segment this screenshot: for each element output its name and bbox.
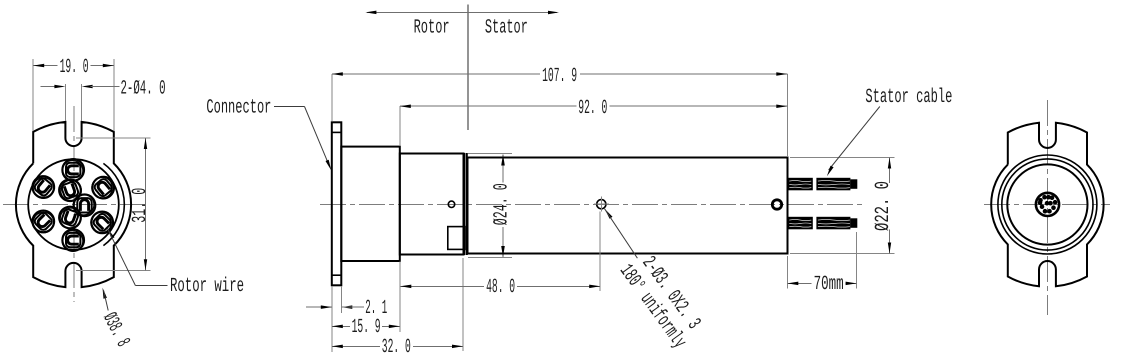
connector pin P9 — [62, 229, 84, 251]
flange plate (side view) — [332, 122, 342, 285]
dimension Ø22.0 — [872, 158, 895, 254]
svg-text:Stator: Stator — [485, 16, 528, 39]
label Stator cable with leader — [827, 86, 953, 176]
dimension 92.0 — [400, 97, 788, 120]
hole 2-Ø3.0 with crosshair — [594, 197, 609, 212]
stator cable tip bottom — [850, 218, 857, 228]
label Connector with leader — [206, 96, 331, 170]
dimension Ø24.0 — [491, 155, 514, 258]
connector pin P6 — [56, 204, 84, 232]
right view horizontal centerline — [984, 204, 1110, 206]
svg-text:32. 0: 32. 0 — [382, 336, 411, 358]
rotor/stator double arrow — [365, 11, 559, 15]
svg-text:31. 0: 31. 0 — [129, 188, 152, 223]
connector pin P1 — [62, 159, 84, 181]
svg-text:Stator cable: Stator cable — [865, 86, 952, 109]
left view horizontal centerline — [3, 204, 150, 206]
right view circle ring outer — [998, 155, 1097, 254]
svg-text:15. 9: 15. 9 — [352, 316, 381, 339]
right view vertical centerline — [1046, 100, 1048, 315]
svg-text:Connector: Connector — [206, 96, 271, 119]
extension lines middle view — [332, 74, 895, 352]
dimension 15.9 — [332, 316, 400, 339]
connector pin P8 — [87, 207, 118, 238]
dimension 48.0 — [400, 276, 600, 299]
connector pin P5 — [73, 194, 95, 216]
label 2-Ø3.0X2.3 180 uniformly with leader — [605, 209, 705, 353]
stator cable bundles top row — [788, 178, 813, 191]
dimension 31.0 — [76, 138, 152, 270]
dimension 70mm — [787, 273, 856, 296]
stator cable tip top — [850, 179, 857, 189]
left view vertical centerline — [73, 106, 75, 302]
connector pin P7 — [28, 206, 59, 237]
bold circle near barrel end — [772, 200, 781, 209]
svg-text:70mm: 70mm — [814, 273, 844, 296]
dimension 19.0 — [33, 56, 114, 131]
rotor/stator separator line — [467, 5, 469, 131]
slot extension lines — [64, 84, 66, 121]
svg-text:2-Ø4. 0: 2-Ø4. 0 — [121, 77, 166, 100]
label Ø38.8 with leader arrow — [97, 288, 133, 351]
svg-text:19. 0: 19. 0 — [60, 56, 89, 79]
right view circle ring inner — [1002, 159, 1093, 250]
dimension 2-Ø4.0 with leader — [41, 77, 166, 100]
svg-text:107. 9: 107. 9 — [542, 65, 577, 88]
label Rotor wire with leader — [108, 229, 245, 298]
svg-text:Rotor wire: Rotor wire — [170, 275, 244, 298]
middle view main axis centerline — [320, 204, 866, 206]
left view inner chamfer arc (right side) — [103, 163, 124, 245]
main barrel Ø24 — [468, 158, 788, 254]
svg-text:48. 0: 48. 0 — [486, 276, 515, 299]
svg-text:Rotor: Rotor — [414, 16, 450, 39]
dimension 2.1 — [306, 297, 387, 320]
right view body circle — [1007, 164, 1087, 244]
connector pin P2 — [28, 172, 59, 203]
stator cable bundles bottom row — [788, 217, 813, 230]
flange slot ticks — [332, 131, 342, 133]
connector pin P3 — [88, 172, 119, 203]
connector housing body — [341, 147, 400, 261]
dimension 32.0 — [332, 336, 463, 358]
dimension 107.9 — [332, 65, 788, 88]
svg-text:Ø24. 0: Ø24. 0 — [491, 183, 514, 225]
end ring double line — [463, 153, 465, 255]
left view flange outline with slotted ears — [16, 122, 131, 287]
svg-text:92. 0: 92. 0 — [578, 97, 607, 120]
right view center wire bundle — [1036, 193, 1059, 216]
middle step body — [400, 154, 464, 255]
connector pin P4 — [56, 176, 84, 204]
svg-text:Ø22. 0: Ø22. 0 — [872, 181, 895, 231]
left view pin boundary circle — [28, 159, 119, 250]
right view flange outline with slotted ears — [991, 123, 1103, 287]
bottom notch on step — [448, 227, 465, 250]
small screw circle on step — [448, 201, 454, 207]
